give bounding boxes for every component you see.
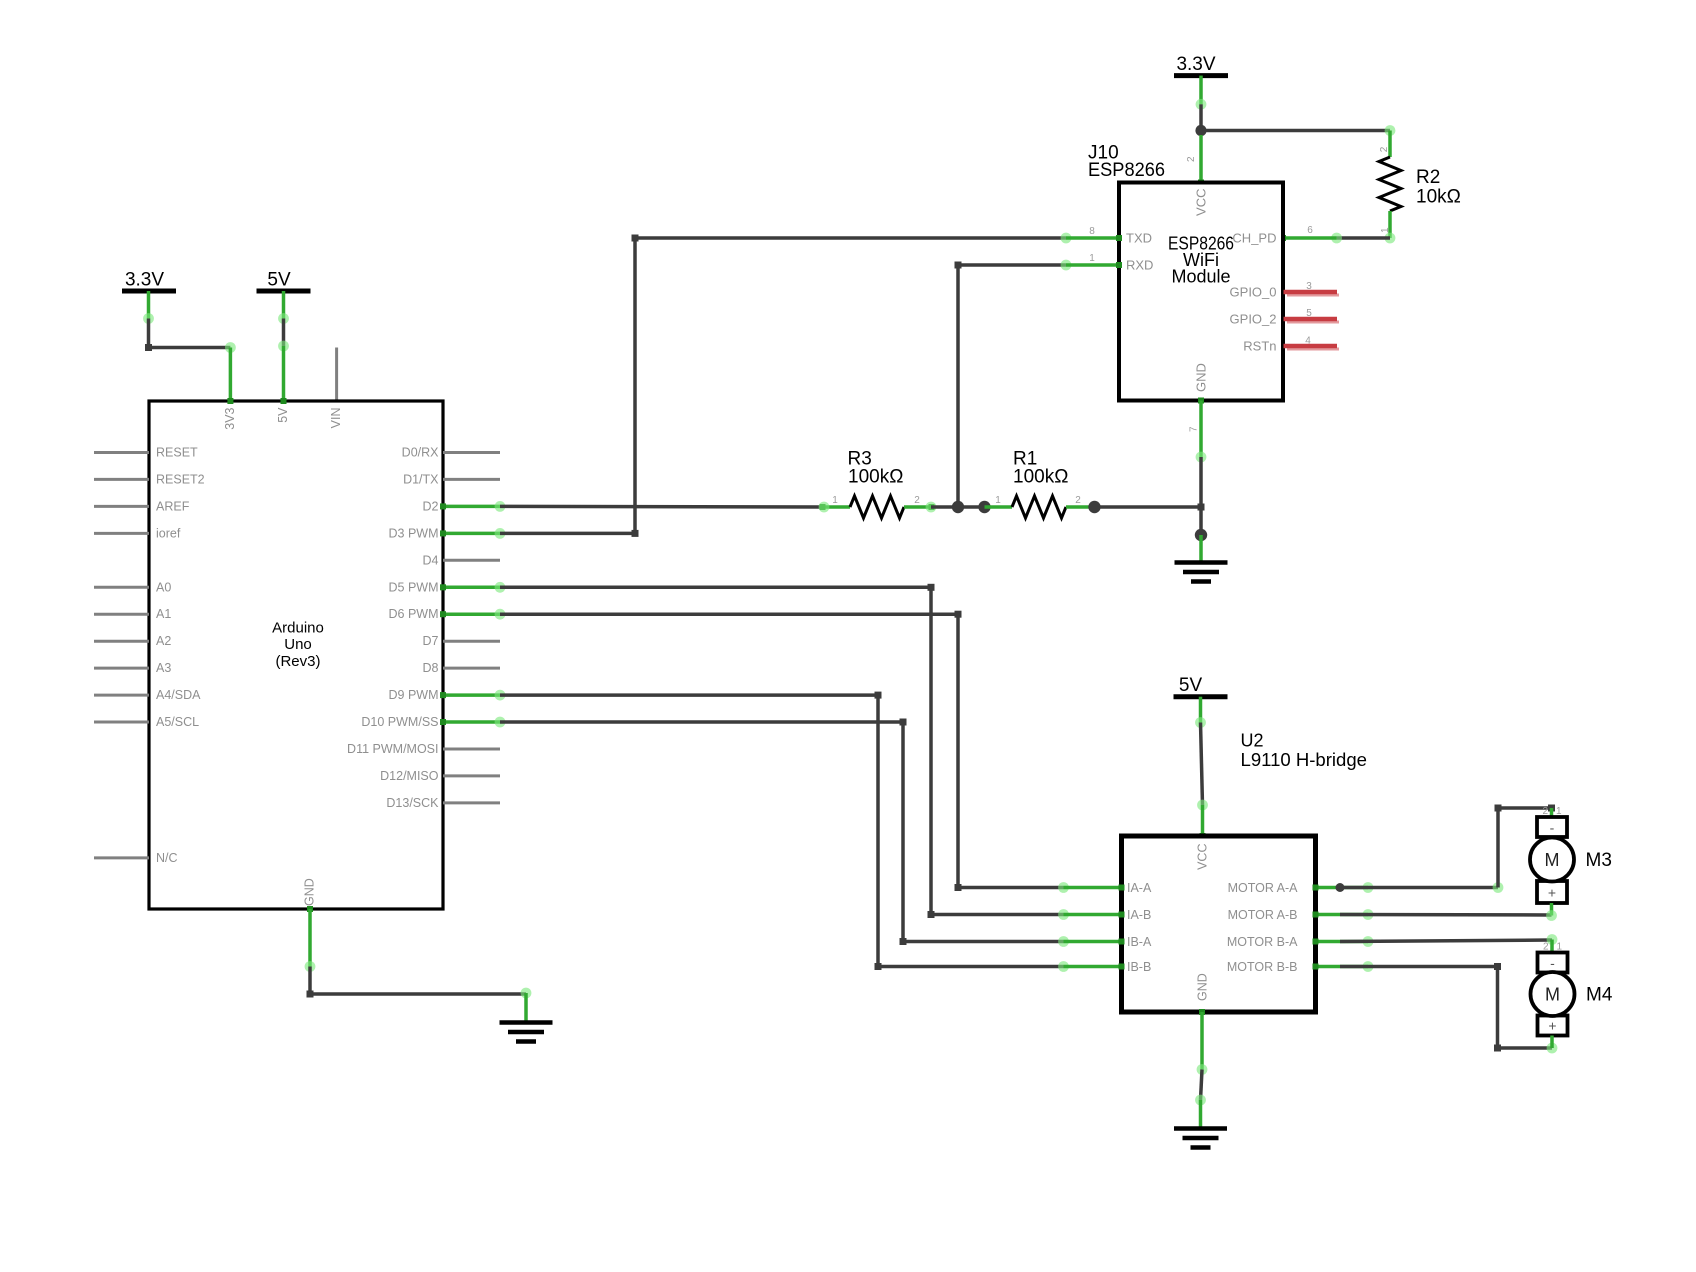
pin A4/SDA stub (94, 688, 201, 702)
pin IB-B stub (1064, 960, 1152, 974)
svg-text:D10 PWM/SS: D10 PWM/SS (361, 715, 438, 729)
ground symbol (ESP8266 / R1) (1175, 563, 1228, 582)
svg-text:MOTOR A-A: MOTOR A-A (1228, 881, 1299, 895)
pin D2 stub (423, 499, 506, 513)
svg-text:8: 8 (1089, 226, 1095, 237)
svg-text:GND: GND (1196, 973, 1210, 1001)
svg-text:2: 2 (1186, 156, 1197, 162)
wire R1 to ground net (1095, 505, 1202, 509)
pin D8 stub (423, 661, 500, 675)
pin D0/RX stub (402, 446, 500, 460)
svg-text:A1: A1 (156, 607, 171, 621)
svg-text:Uno: Uno (284, 636, 312, 653)
svg-text:2: 2 (1542, 806, 1548, 817)
resistor R1 100k (985, 449, 1094, 519)
svg-text:IA-B: IA-B (1127, 908, 1151, 922)
wire MOTOR B-A to M4 pin 1 (1340, 934, 1557, 945)
svg-text:IB-A: IB-A (1127, 935, 1152, 949)
svg-text:RESET2: RESET2 (156, 472, 205, 486)
svg-text:3.3V: 3.3V (1176, 54, 1215, 75)
pin GND label ESP (1189, 363, 1209, 432)
pin A0 stub (94, 580, 171, 594)
svg-text:D3 PWM: D3 PWM (389, 526, 439, 540)
pin VCC label (1186, 156, 1209, 216)
svg-text:5V: 5V (276, 407, 290, 423)
svg-text:D1/TX: D1/TX (403, 472, 439, 486)
power +3.3V rail (Arduino 3V3) (122, 270, 176, 292)
svg-text:-: - (1550, 955, 1555, 971)
svg-text:GND: GND (1194, 363, 1209, 392)
motor M3 (1530, 806, 1574, 921)
svg-text:7: 7 (1189, 426, 1200, 432)
wire D10 to L9110 IB-A (500, 719, 1069, 947)
svg-text:1: 1 (1557, 942, 1563, 953)
Arduino label (272, 620, 324, 670)
svg-text:3: 3 (1306, 281, 1312, 292)
svg-text:IB-B: IB-B (1127, 960, 1151, 974)
ESP8266 label (1168, 234, 1234, 287)
pin TXD stub (1066, 226, 1152, 246)
svg-text:6: 6 (1307, 225, 1313, 236)
wire MOTOR B-B to M4 pin 2 (1340, 963, 1557, 1053)
resistor R3 100k (819, 449, 937, 519)
svg-text:D4: D4 (423, 553, 439, 567)
pin A2 stub (94, 634, 171, 648)
ground symbol (L9110) (1174, 1129, 1227, 1148)
pin RESET2 stub (94, 472, 205, 486)
svg-text:RXD: RXD (1126, 258, 1153, 273)
svg-text:D9 PWM: D9 PWM (389, 688, 439, 702)
pin GPIO_0 stub (unconnected) (1230, 281, 1339, 300)
svg-text:D8: D8 (423, 661, 439, 675)
svg-text:CH_PD: CH_PD (1232, 231, 1276, 246)
svg-text:ioref: ioref (156, 526, 181, 540)
pin ioref stub (94, 526, 181, 540)
svg-text:5V: 5V (267, 270, 291, 291)
svg-text:A0: A0 (156, 580, 171, 594)
svg-text:MOTOR B-B: MOTOR B-B (1227, 960, 1298, 974)
wire ESP8266 RXD to node between R3 and R1 (955, 260, 1072, 507)
motor M4 (1531, 940, 1575, 1049)
svg-text:3V3: 3V3 (223, 407, 237, 429)
svg-text:100kΩ: 100kΩ (848, 467, 903, 488)
stub VIN pin (unconnected) (335, 348, 338, 402)
node junction R1 wire joins ground wire (1198, 504, 1205, 511)
svg-text:Module: Module (1171, 267, 1230, 287)
pin RESET stub (94, 446, 198, 460)
svg-text:ESP8266: ESP8266 (1088, 160, 1165, 181)
pin D11 PWM/MOSI stub (347, 742, 500, 756)
power +5V rail (L9110) (1174, 675, 1228, 697)
svg-text:A5/SCL: A5/SCL (156, 715, 199, 729)
svg-text:4: 4 (1305, 336, 1311, 347)
pin IB-A stub (1064, 935, 1152, 949)
svg-text:GPIO_2: GPIO_2 (1230, 312, 1277, 327)
svg-text:AREF: AREF (156, 499, 190, 513)
svg-text:M: M (1545, 850, 1560, 870)
svg-text:RSTn: RSTn (1243, 339, 1276, 354)
wire MOTOR A-B to M3 pin 2 (1340, 913, 1552, 917)
resistor R2 10k (1379, 131, 1461, 244)
pin MOTOR A-A stub (1228, 881, 1374, 895)
ground symbol (Arduino) (500, 1023, 553, 1042)
Arduino Uno module body (149, 401, 443, 909)
power +3.3V rail (ESP8266) (1174, 54, 1228, 76)
pin connection squares 3V3 / 5V / GND (227, 398, 313, 912)
svg-text:D13/SCK: D13/SCK (386, 796, 439, 810)
svg-text:+: + (1548, 885, 1556, 901)
pin AREF stub (94, 499, 190, 513)
svg-text:2: 2 (1379, 146, 1390, 152)
wire VCC junction down to ESP8266 VCC pin (1198, 135, 1204, 186)
svg-text:1: 1 (1380, 227, 1391, 233)
node junction R1 output (1088, 501, 1100, 513)
svg-text:1: 1 (832, 495, 838, 506)
svg-text:1: 1 (1089, 253, 1095, 264)
svg-text:3.3V: 3.3V (125, 270, 164, 291)
wire 3.3V rail to Arduino 3V3 pin (143, 291, 236, 401)
svg-text:GND: GND (302, 878, 316, 906)
svg-text:100kΩ: 100kΩ (1013, 467, 1068, 488)
svg-text:A2: A2 (156, 634, 171, 648)
svg-text:U2: U2 (1241, 731, 1264, 751)
node junction ground net (1195, 529, 1207, 541)
pin GPIO_2 stub (unconnected) (1230, 308, 1339, 327)
pin MOTOR A-B stub (1228, 908, 1374, 922)
pin CH_PD label (1232, 225, 1313, 246)
pin MOTOR B-A stub (1227, 935, 1374, 949)
svg-text:N/C: N/C (156, 851, 178, 865)
pin D7 stub (423, 634, 500, 648)
wire 5V rail to L9110 VCC (1195, 697, 1208, 839)
wire VCC junction to R2 (1201, 125, 1395, 136)
svg-text:M4: M4 (1586, 985, 1613, 1006)
svg-text:+: + (1548, 1018, 1556, 1034)
pin D10 PWM/SS stub (361, 715, 505, 729)
pin D4 stub (423, 553, 500, 567)
svg-text:-: - (1550, 820, 1555, 836)
svg-text:10kΩ: 10kΩ (1416, 187, 1461, 208)
wire L9110 GND to ground (1195, 1009, 1207, 1129)
svg-text:R2: R2 (1416, 167, 1440, 188)
ESP8266 designator J10 (1088, 143, 1165, 181)
U2 designator (1241, 731, 1368, 771)
L9110 H-bridge U2 body (1122, 836, 1316, 1012)
svg-text:M: M (1545, 985, 1560, 1005)
svg-text:5V: 5V (1179, 675, 1203, 696)
svg-text:2: 2 (1075, 495, 1081, 506)
svg-text:M3: M3 (1586, 850, 1612, 871)
wire D9 to L9110 IB-B (500, 692, 1069, 972)
svg-text:A4/SDA: A4/SDA (156, 688, 201, 702)
svg-text:1: 1 (1556, 806, 1562, 817)
svg-text:GPIO_0: GPIO_0 (1230, 285, 1277, 300)
svg-text:5: 5 (1306, 308, 1312, 319)
power +5V rail (Arduino 5V) (257, 270, 311, 292)
svg-text:D5 PWM: D5 PWM (389, 580, 439, 594)
svg-text:VIN: VIN (329, 408, 343, 429)
wire Arduino GND to ground (305, 909, 532, 1023)
svg-text:D2: D2 (423, 499, 439, 513)
svg-text:MOTOR A-B: MOTOR A-B (1228, 908, 1298, 922)
node junction R3-R1-RXD (931, 501, 991, 513)
pin D12/MISO stub (380, 769, 500, 783)
wire 5V rail to Arduino 5V pin (278, 291, 289, 401)
svg-text:RESET: RESET (156, 446, 198, 460)
wire D5 to L9110 IA-B (500, 584, 1069, 920)
wire junction to ground symbol (1199, 535, 1203, 563)
svg-text:D6 PWM: D6 PWM (389, 607, 439, 621)
pin A5/SCL stub (94, 715, 199, 729)
pin A1 stub (94, 607, 171, 621)
svg-text:D11 PWM/MOSI: D11 PWM/MOSI (347, 742, 438, 756)
svg-text:2: 2 (1543, 942, 1549, 953)
pin IA-B stub (1064, 908, 1152, 922)
wire MOTOR A-A to M3 pin 1 (1336, 805, 1556, 893)
wire 3.3V rail to ESP8266 VCC (1196, 76, 1207, 126)
svg-text:2: 2 (914, 495, 920, 506)
svg-text:L9110 H-bridge: L9110 H-bridge (1241, 750, 1368, 770)
wire D2 to R3 (500, 505, 824, 509)
svg-text:1: 1 (995, 495, 1001, 506)
wire ESP8266 GND to ground (1196, 398, 1207, 536)
svg-text:Arduino: Arduino (272, 620, 324, 637)
svg-text:IA-A: IA-A (1127, 881, 1152, 895)
pin D1/TX stub (403, 472, 500, 486)
pin D5 PWM stub (389, 580, 506, 594)
pin D6 PWM stub (389, 607, 506, 621)
svg-text:VCC: VCC (1194, 189, 1209, 216)
svg-text:TXD: TXD (1126, 231, 1152, 246)
svg-text:D7: D7 (423, 634, 439, 648)
pin D3 PWM stub (389, 526, 506, 540)
pin RXD stub (1066, 253, 1153, 273)
node junction VCC / R2 (1195, 125, 1206, 136)
wire D3 to ESP8266 TXD (500, 233, 1071, 537)
pin N/C stub (94, 851, 178, 865)
wire R2 to CH_PD (1280, 233, 1390, 244)
pin D13/SCK stub (386, 796, 500, 810)
pin MOTOR B-B stub (1227, 960, 1374, 974)
wire D6 to L9110 IA-A (500, 611, 1069, 893)
pin RSTn stub (unconnected) (1243, 336, 1339, 354)
svg-text:(Rev3): (Rev3) (275, 653, 320, 670)
svg-text:VCC: VCC (1196, 844, 1210, 870)
pin A3 stub (94, 661, 171, 675)
pin D9 PWM stub (389, 688, 506, 702)
svg-text:A3: A3 (156, 661, 171, 675)
svg-text:D0/RX: D0/RX (402, 446, 439, 460)
pin IA-A stub (1064, 881, 1152, 895)
ESP8266 module J10 body (1119, 183, 1283, 401)
svg-text:MOTOR B-A: MOTOR B-A (1227, 935, 1298, 949)
svg-text:D12/MISO: D12/MISO (380, 769, 439, 783)
